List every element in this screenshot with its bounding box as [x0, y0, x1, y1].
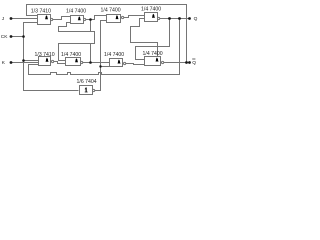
junction Q to channel [168, 17, 171, 20]
wire Q feedback channel down to B4 input 1 [136, 19, 170, 60]
output bubble B3 [124, 62, 126, 64]
svg-text:1/3 7410: 1/3 7410 [31, 9, 51, 15]
gate B2 1/4 7400 box [66, 58, 81, 66]
terminal dot Q-bar [188, 61, 191, 64]
output bubble A1 [51, 18, 53, 20]
wire knot channel upper [59, 23, 95, 32]
wire B4 output staircase feedback up to A4 input 2 [131, 19, 158, 58]
svg-text:1/4 7400: 1/4 7400 [104, 52, 124, 58]
junction Q to bottom channel [178, 17, 181, 20]
inverter 1/6 7404 box [80, 86, 93, 95]
gate A1 1/3 7410 box [38, 15, 51, 25]
junction CK rail at CK input [22, 35, 25, 38]
wire A3 output step up to A4 input 1 [124, 16, 145, 18]
svg-text:1/4 7400: 1/4 7400 [143, 51, 163, 57]
terminal dot J [10, 17, 13, 20]
output bubble inverter [93, 89, 95, 91]
svg-text:1/4 7400: 1/4 7400 [66, 9, 86, 15]
wire A2 output to step up to A3 input 1 [86, 16, 107, 20]
wire A1 output step up to A2 input 1 [53, 17, 71, 20]
junction B2 output [89, 61, 92, 64]
wire Q feedback down right side to bottom channel to B1 input 3 [29, 19, 180, 75]
labels [31, 7, 163, 85]
output bubble B2 [81, 61, 83, 63]
terminal dot K [10, 61, 13, 64]
wire Q-bar output line [164, 62, 190, 64]
svg-text:1/4 7400: 1/4 7400 [61, 52, 81, 58]
wire CK-bar rail branch to B3 input 2 [101, 66, 110, 68]
svg-text:1/6 7404: 1/6 7404 [77, 79, 97, 85]
svg-text:1/3 7410: 1/3 7410 [35, 52, 55, 58]
output bubble A2 [84, 18, 86, 20]
svg-text:1/4 7400: 1/4 7400 [101, 8, 121, 14]
svg-text:1/4 7400: 1/4 7400 [141, 7, 161, 13]
gate B4 1/4 7400 box [145, 57, 161, 66]
wire CK vertical rail with top branch to A1 input 3 and bottom corner to inverter input [24, 23, 79, 91]
wire CK input stub [12, 36, 24, 38]
terminal dot Q [188, 17, 191, 20]
output bubble A4 [158, 17, 160, 19]
junction and terminal dots [10, 17, 191, 68]
wire B3 output step down to B4 input 2 [126, 64, 145, 65]
wire inverter output CK-bar rail up to A3 input 2 [95, 21, 107, 91]
terminal dot CK [10, 35, 13, 38]
svg-text:CK: CK [1, 34, 8, 40]
output bubble B4 [162, 61, 164, 63]
wire CK rail branch to B1 input 1 [24, 60, 39, 62]
wire A2 output down zigzag to B2 input 1 [59, 20, 95, 61]
wire B2 output step up to B3 input 1 [83, 62, 110, 64]
junction A2 output [89, 18, 92, 21]
wire J input to A1 input 2 [12, 18, 38, 20]
svg-text:Q: Q [192, 60, 196, 66]
gate A4 1/4 7400 box [145, 13, 158, 22]
output bubble A3 [122, 16, 124, 18]
gate A2 1/4 7400 box [71, 16, 84, 24]
wire B1 output step down to B2 input 2 [53, 62, 66, 64]
output bubble B1 [52, 60, 54, 62]
gate B3 1/4 7400 box [110, 59, 123, 67]
wire top feedback from Q-bar up and across to gate A1 input 1 [27, 5, 187, 63]
gate B1 1/3 7410 box [39, 57, 51, 66]
svg-text:Q: Q [194, 16, 198, 22]
wire Q output line [160, 18, 190, 20]
wire K input to B1 input 2 [12, 62, 39, 64]
gate A3 1/4 7400 box [107, 15, 121, 23]
inverter glyph 1 [85, 88, 88, 93]
junction CK-bar rail to B3 [99, 65, 101, 67]
junction Q-bar to top feedback [185, 61, 188, 64]
wire B2 output up to channel [90, 44, 92, 63]
junction CK rail to B1 [22, 59, 25, 62]
